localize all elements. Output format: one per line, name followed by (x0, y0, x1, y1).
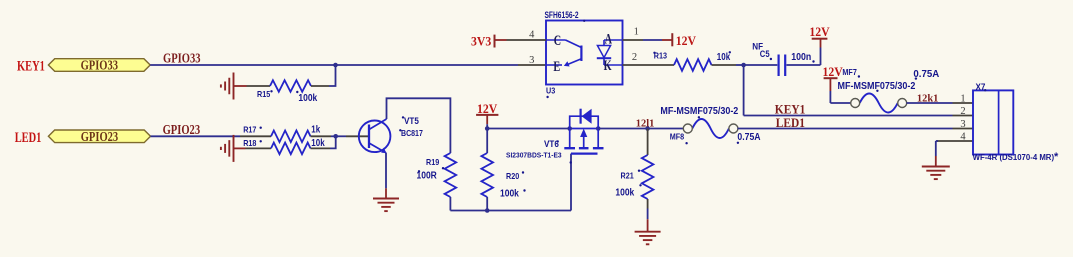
svg-text:SFH6156-2: SFH6156-2 (545, 10, 580, 20)
svg-text:R15: R15 (257, 89, 271, 99)
svg-text:C: C (554, 32, 561, 48)
svg-text:GPIO23: GPIO23 (163, 122, 201, 137)
svg-text:10k: 10k (311, 137, 325, 148)
svg-text:100n: 100n (791, 50, 811, 62)
svg-text:MF7: MF7 (842, 67, 857, 77)
svg-text:C5: C5 (760, 49, 770, 60)
svg-text:R18: R18 (243, 138, 257, 148)
svg-text:*: * (1054, 151, 1059, 163)
svg-text:12V: 12V (823, 65, 843, 80)
svg-text:E: E (553, 58, 560, 74)
svg-text:GPIO33: GPIO33 (163, 50, 201, 65)
svg-text:100k: 100k (298, 92, 318, 103)
svg-text:K: K (604, 57, 612, 73)
svg-text:GPIO23: GPIO23 (81, 129, 118, 145)
svg-text:R19: R19 (426, 157, 440, 167)
svg-text:12V: 12V (477, 102, 497, 117)
svg-text:100k: 100k (500, 188, 520, 199)
svg-text:R17: R17 (243, 125, 257, 135)
svg-text:VT6: VT6 (544, 139, 559, 150)
svg-text:SI2307BDS-T1-E3: SI2307BDS-T1-E3 (506, 151, 562, 159)
svg-text:GPIO33: GPIO33 (81, 57, 118, 73)
svg-text:2: 2 (960, 106, 965, 117)
svg-text:1: 1 (634, 27, 639, 38)
svg-text:4: 4 (960, 132, 966, 143)
svg-text:WF-4R (DS1070-4 MR): WF-4R (DS1070-4 MR) (973, 153, 1055, 162)
svg-text:MF8: MF8 (670, 132, 685, 142)
svg-text:12V: 12V (809, 25, 829, 40)
svg-text:R13: R13 (654, 51, 668, 61)
svg-text:MF-MSMF075/30-2: MF-MSMF075/30-2 (660, 106, 738, 118)
svg-text:100k: 100k (615, 187, 635, 198)
svg-text:U3: U3 (546, 86, 556, 96)
svg-text:VT5: VT5 (404, 116, 419, 127)
svg-text:12l1: 12l1 (636, 117, 655, 129)
svg-text:0.75A: 0.75A (913, 69, 939, 80)
svg-text:A: A (605, 31, 613, 47)
svg-text:KEY1: KEY1 (17, 58, 45, 74)
svg-text:12k1: 12k1 (917, 92, 938, 104)
svg-text:3V3: 3V3 (471, 34, 491, 49)
svg-text:LED1: LED1 (776, 115, 805, 130)
svg-text:1: 1 (960, 94, 965, 105)
svg-text:3: 3 (960, 119, 965, 130)
svg-text:R21: R21 (621, 171, 635, 181)
svg-text:3: 3 (529, 55, 534, 66)
svg-text:LED1: LED1 (15, 129, 42, 145)
svg-text:0.75A: 0.75A (737, 131, 760, 142)
svg-text:2: 2 (632, 52, 637, 63)
svg-text:1k: 1k (311, 124, 321, 135)
svg-text:BC817: BC817 (401, 129, 423, 139)
svg-text:12V: 12V (676, 34, 696, 49)
svg-text:R20: R20 (506, 171, 520, 181)
svg-text:4: 4 (529, 30, 535, 41)
